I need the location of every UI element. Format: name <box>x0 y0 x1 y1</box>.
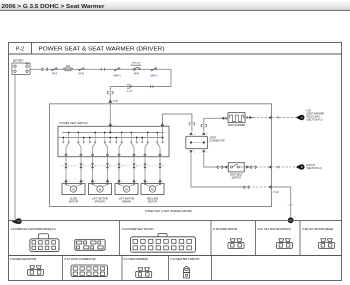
svg-text:30A: 30A <box>66 65 71 68</box>
svg-text:4: 4 <box>110 166 112 168</box>
svg-text:(FRONT): (FRONT) <box>95 199 106 203</box>
table cell P-06 title <box>213 228 237 231</box>
off-page arrow ICM seat warmer relay <box>296 111 325 122</box>
svg-text:MOTOR: MOTOR <box>148 199 158 203</box>
svg-text:P-07 LIFT MOTOR (FRONT): P-07 LIFT MOTOR (FRONT) <box>258 228 291 231</box>
svg-text:B: B <box>301 165 303 169</box>
motor M2 LIFT MOTOR (FRONT) <box>89 183 112 204</box>
connector pair after seat belt switch <box>246 165 279 168</box>
wires switch to motor 3 <box>114 157 139 184</box>
enclosure label <box>145 210 192 213</box>
svg-text:(SECTION P-1): (SECTION P-1) <box>307 119 323 121</box>
P-12 connector drawing <box>184 266 190 278</box>
svg-text:1: 1 <box>68 181 70 183</box>
seat warmer element <box>228 113 246 127</box>
svg-text:M: M <box>72 187 75 191</box>
svg-text:M06-4: M06-4 <box>113 75 121 78</box>
connector pair before seat belt switch <box>217 165 227 168</box>
P-09 connector drawing <box>28 266 44 276</box>
svg-text:2: 2 <box>83 181 85 183</box>
P-07 connector drawing <box>277 239 293 249</box>
switch contact group 1 <box>62 132 84 157</box>
table cell P-10 title <box>65 258 96 261</box>
svg-text:4: 4 <box>294 217 296 219</box>
connector symbol C1 on feed <box>42 68 48 71</box>
svg-text:1: 1 <box>121 181 123 183</box>
P-03 connector drawing <box>131 233 196 252</box>
svg-text:POWER SEAT & SEAT WARMER (DRIV: POWER SEAT & SEAT WARMER (DRIVER) <box>145 210 192 213</box>
connector table grid <box>9 221 342 281</box>
svg-text:M: M <box>125 187 128 191</box>
enclosure pin ground wire with label P-02 <box>268 185 279 194</box>
P-06 connector drawing <box>228 239 244 249</box>
P-02 connector drawing a <box>30 234 59 252</box>
svg-text:M: M <box>151 187 154 191</box>
connector tick on return segment <box>151 85 153 88</box>
switch contact group 2 <box>89 132 111 157</box>
fuse symbol F3 with label <box>113 68 121 78</box>
table cell P-07 title <box>258 228 291 231</box>
joint connector top pins <box>189 132 208 136</box>
pin 7 into switch box <box>108 123 115 127</box>
wire battery to ground G01 <box>14 75 16 220</box>
svg-text:2: 2 <box>110 181 112 183</box>
switch contact group 3 <box>115 132 137 157</box>
svg-text:5: 5 <box>121 166 123 168</box>
connector pair after seat warmer <box>247 116 280 119</box>
motor M3 LIFT MOTOR (REAR) <box>115 183 138 204</box>
svg-text:M: M <box>99 187 102 191</box>
svg-text:2: 2 <box>83 166 85 168</box>
svg-text:2: 2 <box>136 181 138 183</box>
P-10 connector drawing <box>71 265 108 277</box>
pin 6 on switch top <box>160 123 167 127</box>
power seat switch box <box>58 121 169 157</box>
svg-text:SEAT WARMER: SEAT WARMER <box>228 124 246 127</box>
svg-text:3: 3 <box>95 166 97 168</box>
svg-text:A: A <box>301 116 303 120</box>
wire color label 0.5 B <box>288 204 294 206</box>
svg-text:7: 7 <box>207 152 209 154</box>
joint connector bottom pins <box>189 150 208 154</box>
svg-text:3: 3 <box>194 152 196 154</box>
fusible link 30A <box>63 65 73 71</box>
svg-text:1: 1 <box>68 166 70 168</box>
enclosure pin seat warmer wire <box>266 115 272 119</box>
seat belt switch box <box>228 163 244 180</box>
wire joint connector to ground G02 <box>191 153 291 217</box>
switch bus bars <box>58 132 165 139</box>
joint connector box <box>186 136 225 148</box>
svg-text:BREAKER: BREAKER <box>131 64 142 67</box>
svg-text:RELAY) (I/P): RELAY) (I/P) <box>307 116 320 119</box>
svg-text:P-2: P-2 <box>16 47 24 53</box>
ground G01 <box>12 218 22 224</box>
svg-text:P-10 JOINT CONNECTOR: P-10 JOINT CONNECTOR <box>65 258 96 261</box>
connector symbol on return segment with label A-72 <box>127 85 133 93</box>
pin into seat assembly with label P-02 <box>108 99 118 103</box>
svg-text:P-06 SLIDE MOTOR: P-06 SLIDE MOTOR <box>213 228 237 231</box>
svg-text:P-02: P-02 <box>273 191 279 194</box>
svg-text:E-R/CM: E-R/CM <box>307 165 315 167</box>
motor M4 RECLINE MOTOR <box>141 183 164 204</box>
table cell P-02 title <box>11 228 56 231</box>
svg-text:POWER SEAT SWITCH: POWER SEAT SWITCH <box>60 121 88 125</box>
wire joint connector to seat belt switch <box>204 153 229 167</box>
wire seat belt switch to off-page <box>244 166 295 168</box>
ground G02 <box>288 217 296 224</box>
svg-text:I/P-B: I/P-B <box>78 73 84 76</box>
connector pair before seat warmer <box>221 117 226 120</box>
off-page arrow seat belt <box>296 164 322 170</box>
svg-text:(SEAT WARMER: (SEAT WARMER <box>307 113 325 116</box>
svg-text:(SECTION I-2): (SECTION I-2) <box>307 168 322 170</box>
inline connector on seat warmer wire <box>201 124 207 127</box>
P-08 connector drawing <box>319 239 335 249</box>
enclosure pin seat belt wire <box>268 165 271 168</box>
circuit breaker with label <box>131 62 142 75</box>
table cell P-12 title <box>170 258 199 261</box>
table cell P-09 title <box>10 258 36 261</box>
table cell P-11 title <box>124 258 148 261</box>
wire switch bus to joint connector <box>162 114 192 138</box>
P-02 connector drawing b <box>75 240 105 251</box>
svg-text:6: 6 <box>136 166 138 168</box>
svg-text:P-11 SEAT WARMER: P-11 SEAT WARMER <box>124 258 148 261</box>
wire battery B+ feed <box>30 69 171 86</box>
title P-2 <box>16 47 165 53</box>
svg-text:1: 1 <box>95 181 97 183</box>
battery <box>12 60 30 75</box>
wires switch to motor 4 <box>140 157 165 184</box>
connector tick C2 <box>101 68 104 71</box>
wires switch to motor 2 <box>88 157 113 184</box>
svg-text:P-09 RECLINE MOTOR: P-09 RECLINE MOTOR <box>10 258 36 261</box>
svg-text:2006 > G 3.5 DOHC > Seat Warme: 2006 > G 3.5 DOHC > Seat Warmer <box>2 4 106 10</box>
seat assembly enclosure box <box>50 104 272 207</box>
wires switch to motor 1 <box>61 157 86 184</box>
svg-text:P-02 POWER SEAT & SEAT WARMER: P-02 POWER SEAT & SEAT WARMER (DRIVER) (… <box>11 228 56 231</box>
svg-text:4: 4 <box>194 134 196 136</box>
svg-text:0.5 B: 0.5 B <box>288 204 294 206</box>
wire feed drop to power seat switch <box>109 87 111 133</box>
diagram outer frame <box>9 43 342 281</box>
wire joint connector to seat warmer <box>204 118 228 131</box>
switch contact group 4 <box>141 132 163 157</box>
breadcrumb header bar <box>0 0 350 11</box>
svg-text:CONNECTOR: CONNECTOR <box>209 140 225 143</box>
inline connector on feed drop <box>107 91 113 94</box>
motor M1 SLIDE MOTOR <box>62 183 85 204</box>
svg-text:BATTERY: BATTERY <box>13 60 24 63</box>
svg-text:I/P-E: I/P-E <box>52 73 58 76</box>
svg-text:M06-3: M06-3 <box>150 75 158 78</box>
wire seat warmer to relay <box>245 117 296 119</box>
svg-text:A-72: A-72 <box>127 90 133 93</box>
fuse symbol F1 with label <box>52 68 58 76</box>
svg-text:ICM: ICM <box>307 111 311 113</box>
svg-text:SWITCH: SWITCH <box>232 176 242 179</box>
svg-text:(REAR): (REAR) <box>122 199 131 203</box>
svg-text:8: 8 <box>162 166 164 168</box>
svg-text:8: 8 <box>207 134 209 136</box>
table cell P-08 title <box>302 228 333 231</box>
fuse symbol F2 with label <box>78 68 84 76</box>
svg-text:7: 7 <box>147 166 149 168</box>
svg-text:2: 2 <box>162 181 164 183</box>
inline connector on joint wire <box>189 122 195 125</box>
svg-text:3: 3 <box>266 115 268 117</box>
svg-text:1: 1 <box>147 181 149 183</box>
table cell P-03 title <box>122 228 154 231</box>
P-11 connector drawing <box>136 268 152 278</box>
inline connector on ground wire <box>244 186 250 189</box>
svg-text:POWER SEAT & SEAT WARMER (DRIV: POWER SEAT & SEAT WARMER (DRIVER) <box>39 47 165 53</box>
svg-text:P-02: P-02 <box>113 100 119 103</box>
svg-text:MOTOR: MOTOR <box>69 199 79 203</box>
svg-text:P-12 SEAT BELT SWITCH: P-12 SEAT BELT SWITCH <box>170 258 199 261</box>
svg-text:P-08 LIFT MOTOR (REAR): P-08 LIFT MOTOR (REAR) <box>302 228 333 231</box>
fuse symbol F4 with label <box>150 68 158 78</box>
svg-text:P-03 POWER SEAT SWITCH: P-03 POWER SEAT SWITCH <box>122 228 154 231</box>
svg-text:M49: M49 <box>134 73 139 76</box>
